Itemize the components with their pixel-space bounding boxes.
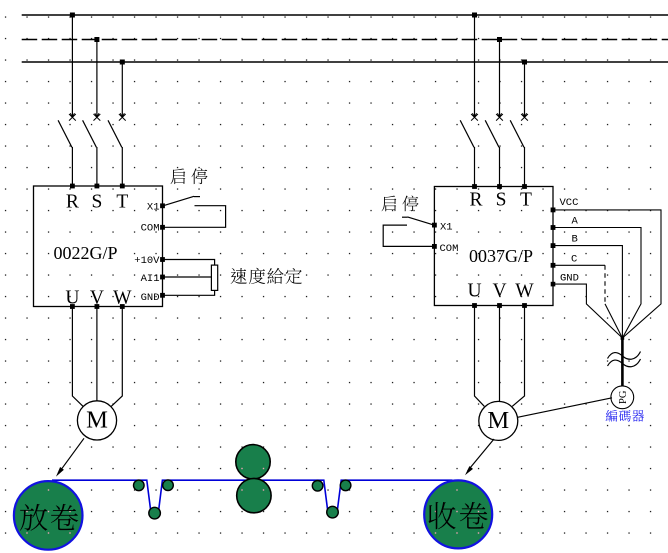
switch S1 blade (start/stop) bbox=[163, 196, 194, 206]
breaker QF1 pole 2 with wire drop bbox=[96, 40, 98, 117]
wire GND to encoder bbox=[553, 284, 622, 338]
terminal V of U2 (bottom) bbox=[497, 303, 502, 308]
left dancer guide roller 1 bbox=[134, 480, 145, 491]
svg-text:GND: GND bbox=[141, 292, 160, 304]
terminal W of U2 (bottom) bbox=[522, 303, 527, 308]
svg-text:R: R bbox=[66, 192, 79, 213]
wire U2.W to M2 bbox=[512, 306, 524, 407]
unwind roll (放卷) bbox=[14, 481, 83, 550]
nip roller top bbox=[236, 445, 270, 479]
breaker QF1 pole 3 with wire drop bbox=[121, 62, 123, 116]
wire U1.V to M1 bbox=[96, 307, 98, 401]
label 速度给定 bbox=[231, 268, 247, 284]
bus line L1 (phase R) bbox=[22, 14, 668, 16]
VFD U1 0022G/P outline bbox=[34, 186, 163, 307]
terminal A of U2 bbox=[551, 225, 556, 230]
potentiometer RP1 body bbox=[211, 265, 217, 290]
wire U1.W to M1 bbox=[111, 307, 122, 407]
wire AI1 to pot wiper bbox=[163, 276, 212, 278]
right dancer roller bbox=[327, 506, 339, 518]
svg-text:GND: GND bbox=[560, 273, 579, 285]
svg-text:T: T bbox=[116, 192, 128, 213]
wire S2 fixed contact to COM loop bbox=[383, 225, 434, 246]
wire U2.V to M2 bbox=[499, 306, 501, 403]
label 放卷 bbox=[20, 504, 47, 531]
terminal R of U2 bbox=[472, 184, 477, 189]
wire VCC to encoder bbox=[553, 210, 661, 338]
label 收卷 bbox=[429, 502, 456, 529]
svg-text:V: V bbox=[492, 281, 506, 302]
terminal V of U1 (bottom) bbox=[95, 304, 100, 309]
svg-text:M: M bbox=[487, 407, 509, 434]
svg-text:COM: COM bbox=[141, 223, 160, 235]
svg-text:S: S bbox=[91, 192, 102, 213]
terminal B of U2 bbox=[551, 243, 556, 248]
wire C to encoder (dashed vertical) bbox=[553, 264, 605, 266]
terminal U of U1 (bottom) bbox=[70, 304, 75, 309]
terminal R of U1 bbox=[70, 184, 75, 189]
svg-text:+10V: +10V bbox=[134, 255, 160, 267]
wire B to encoder bbox=[553, 246, 622, 338]
svg-text:S: S bbox=[496, 189, 507, 210]
svg-text:W: W bbox=[515, 281, 534, 302]
breaker QF2 pole 2 with wire drop bbox=[499, 40, 501, 117]
wire U2.U to M2 bbox=[475, 306, 485, 407]
terminal AI1 of U1 bbox=[160, 275, 165, 280]
breaker QF1 pole 1 with wire drop bbox=[71, 15, 73, 116]
bus line L2 (phase S, dashed) bbox=[22, 39, 668, 41]
label 启停 (right) bbox=[382, 196, 397, 212]
node encoder cable junction bbox=[621, 336, 625, 340]
junction node L1/left drop bbox=[70, 13, 75, 18]
encoder cable (thick) bbox=[621, 338, 624, 386]
arrow M2 to rewind roll bbox=[468, 439, 495, 471]
VFD U2 0037G/P outline bbox=[434, 187, 553, 306]
terminal S of U2 bbox=[497, 184, 502, 189]
arrow M1 to unwind roll bbox=[60, 438, 85, 472]
right dancer guide roller 1 bbox=[312, 481, 323, 492]
junction node L3/left drop bbox=[120, 60, 125, 65]
svg-text:0022G/P: 0022G/P bbox=[54, 243, 118, 263]
left dancer roller bbox=[149, 507, 161, 519]
wire GND to pot bottom bbox=[163, 290, 215, 295]
switch S2 blade (start/stop) bbox=[408, 217, 435, 225]
svg-text:R: R bbox=[469, 189, 482, 210]
svg-text:M: M bbox=[86, 407, 108, 434]
svg-text:VCC: VCC bbox=[560, 197, 579, 209]
web/material line bbox=[52, 480, 453, 511]
wire encoder to motor M2 shaft bbox=[518, 398, 613, 418]
breaker QF2 pole 1 with wire drop bbox=[474, 15, 476, 116]
svg-text:X1: X1 bbox=[440, 222, 453, 234]
rewind roll (收卷) bbox=[424, 480, 492, 548]
svg-text:COM: COM bbox=[440, 243, 459, 255]
wire +10V to pot top bbox=[163, 260, 215, 266]
bus line L3 (phase T) bbox=[22, 61, 668, 63]
svg-text:T: T bbox=[520, 189, 532, 210]
terminal W of U1 (bottom) bbox=[120, 304, 125, 309]
terminal GND of U1 bbox=[160, 293, 165, 298]
nip roller bottom bbox=[237, 478, 271, 512]
cable break symbol bbox=[608, 352, 641, 360]
label 启停 (left) bbox=[171, 168, 186, 184]
terminal +10V of U1 bbox=[160, 257, 165, 262]
wire U1.U to M1 bbox=[72, 307, 83, 407]
junction node L1/right drop bbox=[472, 13, 477, 18]
svg-text:0037G/P: 0037G/P bbox=[469, 246, 533, 266]
breaker QF2 pole 3 with wire drop bbox=[524, 62, 526, 116]
terminal COM of U1 bbox=[160, 225, 165, 230]
terminal COM of U2 bbox=[432, 244, 437, 249]
svg-text:B: B bbox=[572, 234, 578, 246]
junction node L2/right drop bbox=[497, 37, 502, 42]
terminal C of U2 bbox=[551, 263, 556, 268]
terminal GND of U2 bbox=[551, 282, 556, 287]
right dancer guide roller 2 bbox=[340, 480, 351, 491]
svg-text:A: A bbox=[572, 216, 579, 228]
terminal T of U1 bbox=[120, 184, 125, 189]
wire A to encoder bbox=[553, 228, 641, 339]
junction node L3/right drop bbox=[522, 60, 527, 65]
terminal X1 of U2 bbox=[432, 223, 437, 228]
label 编码器 bbox=[606, 410, 618, 422]
terminal VCC of U2 bbox=[551, 208, 556, 213]
wire S1 fixed contact to COM loop bbox=[163, 206, 226, 228]
svg-text:U: U bbox=[467, 281, 481, 302]
terminal S of U1 bbox=[95, 184, 100, 189]
junction node L2/left drop bbox=[94, 37, 99, 42]
svg-text:AI1: AI1 bbox=[141, 273, 160, 285]
terminal U of U2 (bottom) bbox=[472, 303, 477, 308]
motor M1 bbox=[77, 401, 116, 440]
svg-text:PG: PG bbox=[618, 390, 629, 404]
svg-text:C: C bbox=[571, 254, 577, 266]
terminal X1 of U1 bbox=[160, 203, 165, 208]
terminal T of U2 bbox=[522, 184, 527, 189]
svg-text:X1: X1 bbox=[147, 202, 160, 214]
encoder PG bbox=[611, 386, 634, 409]
left dancer guide roller 2 bbox=[163, 480, 174, 491]
motor M2 bbox=[479, 401, 518, 440]
grid dots over rolls bbox=[26, 511, 27, 512]
